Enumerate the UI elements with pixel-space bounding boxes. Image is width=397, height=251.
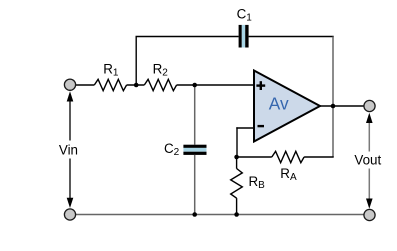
resistor RA	[272, 151, 304, 162]
wire: top feedback rail right of C1	[249, 36, 334, 38]
svg-text:Av: Av	[269, 94, 289, 114]
svg-text:Vin: Vin	[59, 142, 78, 157]
Vout dimension arrow lower	[366, 169, 373, 209]
pin label + (non-inverting input)	[256, 81, 265, 90]
wire: feedback node to RA	[237, 156, 272, 158]
terminal: input top	[64, 79, 75, 90]
wire: C2 branch vertical lower	[194, 155, 196, 215]
resistor RB	[231, 169, 243, 199]
node: R2-C2 junction	[192, 83, 197, 88]
wire: inverting input vertical down to feedback node	[236, 127, 238, 157]
wire: C2 branch vertical upper	[194, 85, 196, 145]
resistor R2	[144, 79, 176, 90]
node: RB ground junction	[234, 212, 239, 217]
wire: inverting input horizontal	[236, 127, 254, 129]
svg-text:Vout: Vout	[354, 153, 381, 168]
wire: RB to ground bus	[236, 198, 238, 214]
Vin dimension arrow lower	[67, 159, 74, 209]
resistor R1	[94, 79, 126, 90]
Vout dimension arrow upper	[366, 113, 373, 152]
terminal: output bottom	[364, 209, 375, 220]
wire: vertical from R1-R2 node up to feedback rail	[135, 37, 137, 86]
wire: R1 to R2	[127, 84, 145, 86]
capacitor C2	[183, 145, 206, 155]
node: output junction	[331, 104, 336, 109]
wire: feedback node down to RB	[236, 157, 238, 169]
node: C2 ground junction	[192, 212, 197, 217]
terminal: output top	[364, 100, 375, 111]
wire: right vertical from feedback rail down to RA	[332, 37, 334, 158]
op-amp Av	[254, 71, 320, 142]
wire: top feedback rail left of C1	[136, 36, 239, 38]
Vin dimension arrow upper	[67, 91, 74, 140]
terminal: input bottom	[64, 209, 75, 220]
wire: RA to right vertical	[304, 156, 334, 158]
wire: op-amp output to output terminal	[320, 105, 370, 107]
pin label - (inverting input)	[258, 125, 265, 127]
wire: R2 to op-amp + input	[177, 84, 254, 86]
node: feedback divider junction	[234, 155, 239, 160]
node: R1-R2 junction	[134, 83, 139, 88]
wire: input rail segment terminal to R1	[70, 84, 94, 86]
capacitor C1	[239, 25, 249, 48]
wire: ground bus	[70, 214, 370, 216]
